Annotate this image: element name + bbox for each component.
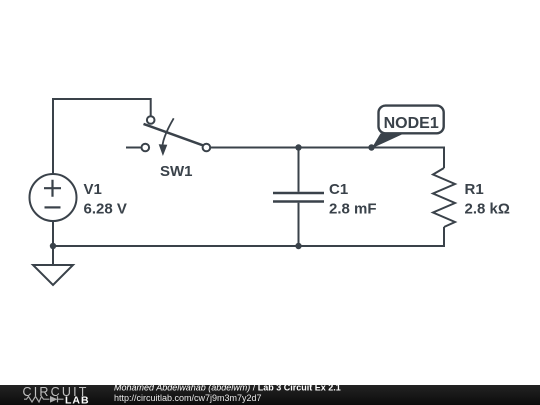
node NODE1 flag tail — [372, 134, 405, 149]
CircuitLab logo resistor-diode glyph — [24, 396, 64, 402]
ground — [33, 265, 73, 285]
switch SW1 actuation arrow — [159, 118, 174, 156]
switch SW1 left throw terminal — [142, 144, 150, 152]
junction: NODE1 flag attach point — [368, 144, 374, 150]
wire: SW1 left throw stub — [126, 147, 142, 149]
node NODE1 flag box — [379, 106, 444, 134]
footer bar — [0, 385, 540, 405]
switch SW1 blade — [144, 124, 204, 146]
wire: C1 bottom lead — [298, 203, 300, 246]
svg-text:V1: V1 — [84, 181, 102, 198]
svg-text:SW1: SW1 — [160, 163, 193, 180]
resistor R1 zigzag — [433, 168, 455, 227]
svg-text:6.28 V: 6.28 V — [84, 201, 127, 218]
svg-text:Mohamed Abdelwahab (abdelwm) /: Mohamed Abdelwahab (abdelwm) / Lab 3 Cir… — [114, 383, 341, 393]
wire: SW1 right terminal to top-right corner and down to R1 — [210, 148, 444, 169]
junction: C1 top on NODE1 rail — [295, 144, 301, 150]
svg-text:NODE1: NODE1 — [384, 115, 439, 132]
capacitor C1 plates — [273, 193, 324, 202]
wire: C1 top lead — [298, 148, 300, 192]
switch SW1 right throw terminal — [203, 144, 211, 152]
svg-text:C1: C1 — [329, 181, 348, 198]
svg-text:2.8 kΩ: 2.8 kΩ — [465, 201, 510, 218]
junction: C1 bottom on ground rail — [295, 243, 301, 249]
svg-text:2.8 mF: 2.8 mF — [329, 201, 377, 218]
wire: V1 bottom lead to ground — [52, 221, 54, 265]
svg-text:R1: R1 — [465, 181, 484, 198]
voltage source V1 — [30, 174, 77, 221]
switch SW1 pivot terminal — [147, 116, 155, 124]
svg-text:http://circuitlab.com/cw7j9m3m: http://circuitlab.com/cw7j9m3m7y2d7 — [114, 393, 262, 403]
svg-text:LAB: LAB — [65, 394, 90, 405]
wire: bottom rail from R1 to V1 — [53, 227, 444, 246]
wire: V1 top lead up and across to SW1 pivot — [53, 99, 151, 174]
junction: V1 bottom node — [50, 243, 56, 249]
